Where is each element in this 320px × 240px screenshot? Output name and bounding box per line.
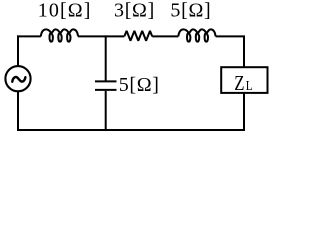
- capacitor C bottom plate: [95, 89, 117, 91]
- svg-text:10[Ω]: 10[Ω]: [38, 0, 92, 22]
- wire capacitor branch upper: [105, 35, 107, 80]
- label ZL in load box: [234, 72, 252, 95]
- resistor R1 3 ohm: [124, 31, 152, 41]
- svg-text:5[Ω]: 5[Ω]: [119, 74, 160, 96]
- svg-text:3[Ω]: 3[Ω]: [114, 0, 155, 22]
- svg-text:5[Ω]: 5[Ω]: [170, 0, 211, 22]
- wire bottom rail: [18, 129, 245, 131]
- ac source circle: [5, 66, 30, 91]
- capacitor C top plate: [95, 80, 117, 82]
- svg-text:Z: Z: [234, 72, 244, 95]
- wire left vertical upper: [17, 35, 19, 66]
- ac source sine symbol: [12, 77, 25, 82]
- wire top rail right and corner down to box: [216, 36, 244, 67]
- load box ZL: [221, 67, 267, 93]
- wire top rail between L1 and resistor (through node): [78, 35, 124, 37]
- wire from box bottom down: [243, 93, 245, 131]
- svg-text:L: L: [246, 78, 253, 93]
- inductor L2 5 ohm: [178, 29, 215, 41]
- wire capacitor branch lower: [105, 91, 107, 131]
- wire top rail left lead: [17, 35, 41, 37]
- wire between resistor and L2: [152, 35, 178, 37]
- wire left vertical lower: [17, 91, 19, 131]
- inductor L1 10 ohm: [41, 29, 78, 41]
